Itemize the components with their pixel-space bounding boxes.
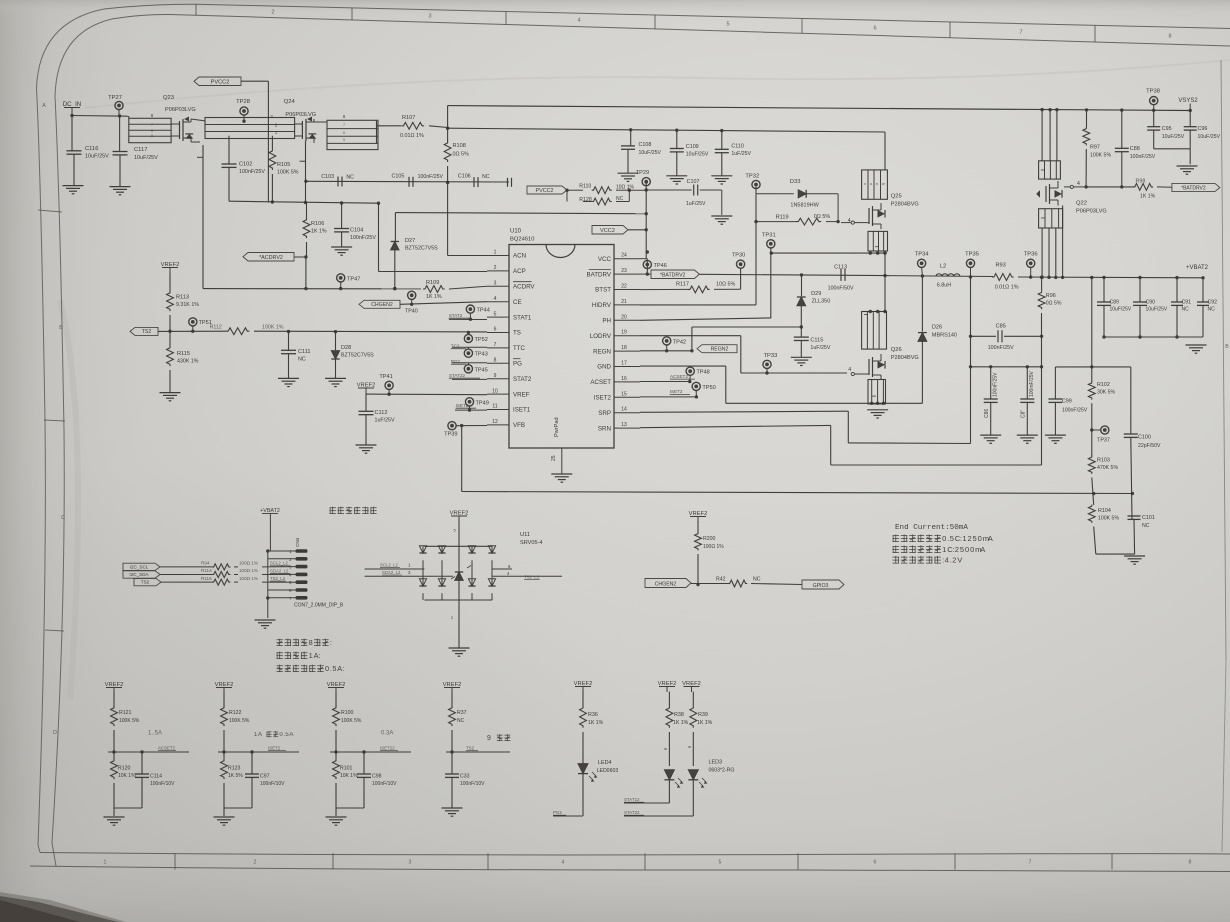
svg-text:NC: NC (1142, 523, 1150, 529)
svg-text:TP50: TP50 (702, 385, 715, 391)
wire C86/C87 row (971, 366, 1042, 368)
svg-text:PH: PH (602, 318, 611, 325)
svg-text:C115: C115 (810, 338, 823, 344)
svg-text:R105: R105 (277, 162, 290, 168)
svg-text:NC: NC (457, 718, 465, 724)
transistor Q23 left pin box (129, 118, 171, 142)
svg-text:0: 0 (325, 664, 329, 673)
wire row y202 (229, 201, 379, 203)
ground D28 (325, 377, 346, 379)
svg-text:2: 2 (254, 860, 257, 866)
svg-text:CE: CE (513, 299, 522, 306)
svg-text:TP38: TP38 (1146, 89, 1160, 95)
tag CHGEN2 to CE (359, 300, 400, 308)
svg-text:0.3A: 0.3A (381, 731, 393, 737)
resistor R103 (1088, 456, 1095, 474)
svg-text:0: 0 (970, 545, 974, 554)
wire TS row (158, 330, 226, 332)
svg-text:3: 3 (428, 14, 431, 20)
ground R104 (1124, 555, 1145, 557)
wire HIDRV to TP32 riser (640, 304, 756, 306)
capacitor C108 (629, 128, 632, 131)
svg-text:1: 1 (494, 250, 497, 256)
svg-text:TP41: TP41 (379, 374, 392, 380)
svg-text:100K 5%: 100K 5% (341, 718, 362, 724)
svg-text:100Ω 1%: 100Ω 1% (239, 568, 258, 573)
svg-text::: : (319, 651, 321, 660)
wire CN4 bus (267, 551, 269, 598)
transistor Q25 lower pin box (868, 231, 888, 251)
ground C107 (721, 190, 723, 215)
svg-text:5: 5 (494, 311, 497, 317)
svg-text:VFB: VFB (513, 422, 525, 429)
svg-text:Q23: Q23 (163, 95, 174, 101)
svg-text:TP36: TP36 (1024, 252, 1038, 258)
ground C109 (666, 175, 687, 177)
svg-text:TP35: TP35 (965, 252, 979, 258)
svg-text:V: V (957, 556, 962, 565)
svg-text:12: 12 (492, 419, 498, 425)
svg-text:ACDRV: ACDRV (513, 284, 535, 291)
svg-text:10uF/25V: 10uF/25V (686, 152, 709, 158)
svg-text:ACN: ACN (513, 253, 526, 260)
svg-text:DC_IN: DC_IN (63, 101, 82, 108)
svg-text:BZT52C7V5S: BZT52C7V5S (405, 246, 438, 252)
svg-text:HIDRV: HIDRV (592, 302, 612, 309)
svg-text:100nF/25V: 100nF/25V (239, 169, 265, 175)
svg-text:20: 20 (621, 314, 627, 320)
svg-text:VCC2: VCC2 (600, 228, 615, 234)
svg-text:100K 5%: 100K 5% (277, 170, 299, 176)
svg-text:0Ω 5%: 0Ω 5% (814, 214, 831, 220)
svg-text:1..5A: 1..5A (148, 731, 162, 737)
svg-text:TP45: TP45 (475, 367, 488, 373)
svg-text:TTC: TTC (513, 345, 526, 352)
svg-text:100K 5%: 100K 5% (1090, 153, 1111, 159)
svg-text:1: 1 (962, 534, 966, 543)
wire Q24 box right bus (376, 121, 378, 143)
svg-text:470K 5%: 470K 5% (1097, 465, 1118, 471)
svg-text:2: 2 (952, 556, 956, 565)
capacitor C90 (1138, 276, 1141, 279)
wire Q25 drain top bus (862, 169, 887, 171)
svg-text:18: 18 (621, 345, 627, 351)
capacitor C114 (141, 752, 143, 774)
svg-text:TP32: TP32 (745, 174, 759, 180)
capacitor C88 (1121, 110, 1123, 148)
transistor Q26 upper pin box (862, 312, 887, 350)
svg-text:PVCC2: PVCC2 (211, 79, 230, 85)
tag CHGEN2 bottom (645, 579, 691, 588)
svg-text:6: 6 (151, 129, 153, 133)
svg-text:8: 8 (1189, 860, 1192, 866)
svg-text:0: 0 (965, 545, 969, 554)
svg-text:LED3: LED3 (709, 760, 723, 766)
svg-text:19: 19 (621, 330, 627, 336)
svg-text:BZT52C7V5S: BZT52C7V5S (341, 353, 374, 359)
testpoint TP48 (686, 367, 694, 375)
svg-text:C114: C114 (150, 774, 162, 780)
svg-text:o: o (870, 182, 872, 186)
testpoint TP39 wire VFB (448, 422, 456, 430)
svg-text:C112: C112 (375, 410, 388, 416)
svg-text:ZLL350: ZLL350 (812, 299, 831, 305)
tag *ACDRV2 (243, 253, 294, 262)
ground C33 (442, 807, 463, 809)
capacitor C109 (675, 129, 678, 132)
svg-text:BATDRV: BATDRV (586, 271, 611, 278)
transistor Q25 upper pin box (862, 170, 888, 199)
capacitor C117 (119, 116, 121, 152)
svg-text:LED0603: LED0603 (597, 768, 619, 774)
svg-text:7: 7 (494, 342, 497, 348)
wire Q23 drain to box2 (191, 119, 205, 121)
svg-text:BTST: BTST (595, 287, 611, 294)
svg-text:R116: R116 (201, 576, 212, 581)
svg-text:C100: C100 (1138, 435, 1151, 441)
transistor Q22 upper pin bundle (1041, 110, 1043, 161)
capacitor C99 (1054, 367, 1056, 399)
svg-text:U10: U10 (510, 229, 522, 235)
wire Q26 source ground row (726, 402, 923, 404)
svg-text:STAT22: STAT22 (449, 373, 466, 378)
svg-text:R36: R36 (588, 712, 598, 718)
resistor R102 (1088, 381, 1095, 399)
svg-text:23: 23 (621, 268, 627, 274)
svg-text:R200: R200 (703, 536, 716, 542)
svg-text:R42: R42 (716, 577, 726, 583)
svg-text:C109: C109 (686, 144, 699, 150)
svg-text:P06P03LVG: P06P03LVG (165, 107, 196, 113)
svg-text:VSYS2: VSYS2 (1178, 98, 1198, 104)
resistor R200 (697, 521, 699, 532)
svg-text:8: 8 (494, 358, 497, 364)
svg-text:R101: R101 (340, 766, 353, 772)
svg-text:SDA2_L2: SDA2_L2 (382, 570, 401, 575)
svg-text:6.8uH: 6.8uH (937, 283, 951, 289)
testpoint TP50 (692, 382, 700, 390)
svg-text:10uF/25V: 10uF/25V (1198, 134, 1221, 140)
transistor Q23 gate wire (181, 141, 203, 158)
svg-text:22: 22 (621, 284, 627, 290)
svg-text:*BATDRV2: *BATDRV2 (1181, 185, 1206, 191)
svg-text:U11: U11 (520, 532, 530, 538)
capacitor C111 (288, 332, 290, 351)
tag PVCC2 mid (527, 186, 567, 194)
wire R37 junction (446, 751, 510, 753)
wire ACDRV row (203, 288, 421, 290)
svg-text:Q26: Q26 (891, 347, 902, 353)
svg-text:14: 14 (621, 407, 627, 413)
svg-text:C104: C104 (350, 228, 363, 234)
resistor R105 (271, 136, 273, 149)
svg-text:ISET1: ISET1 (513, 407, 531, 414)
ground C86 (980, 434, 1001, 436)
svg-text:SRN: SRN (598, 425, 611, 432)
transistor Q22 lower pin bundle (1039, 209, 1063, 228)
wire LODRV to Q26 gate (640, 335, 741, 337)
tag TS2 row3 (134, 578, 161, 585)
svg-text:n: n (876, 182, 878, 186)
svg-text:430K 1%: 430K 1% (177, 359, 199, 365)
diode array U11 mid rails (365, 568, 425, 570)
svg-text:SDA2_L2: SDA2_L2 (270, 568, 289, 573)
svg-text:1uF/25V: 1uF/25V (375, 418, 395, 424)
capacitor C100 (1130, 367, 1132, 434)
svg-text:NC: NC (616, 196, 624, 202)
svg-text:L2: L2 (940, 264, 946, 270)
svg-text:SCL2_L2: SCL2_L2 (270, 561, 289, 566)
svg-text:ACSET2: ACSET2 (158, 746, 176, 751)
svg-text:100K 5%: 100K 5% (1098, 516, 1119, 522)
svg-text:TP27: TP27 (108, 95, 122, 101)
wire LED3b cathode STAT22 (692, 780, 694, 816)
svg-text:2: 2 (271, 10, 274, 16)
svg-text:C111: C111 (298, 349, 311, 355)
svg-text:7: 7 (151, 123, 153, 127)
svg-text:ISET22: ISET22 (380, 746, 395, 751)
svg-text:C116: C116 (85, 146, 98, 152)
svg-text:TP43: TP43 (475, 352, 488, 358)
wire Q26 drain top bus (862, 311, 887, 313)
svg-text:*ACDRV2: *ACDRV2 (259, 255, 283, 261)
svg-text:0: 0 (942, 534, 946, 543)
svg-text:4: 4 (945, 556, 949, 565)
wire LED4 cathode (582, 774, 584, 816)
svg-text:30K 5%: 30K 5% (1097, 390, 1116, 396)
svg-text:C103: C103 (321, 174, 334, 180)
svg-text:10: 10 (492, 388, 498, 394)
svg-text:R114: R114 (201, 568, 212, 573)
svg-text:100nF/10V: 100nF/10V (150, 781, 175, 787)
ground C111 (278, 377, 299, 379)
wire filter row y181 (306, 180, 509, 183)
svg-text:1K 1%: 1K 1% (1140, 194, 1156, 200)
svg-text:C108: C108 (639, 142, 652, 148)
wire SRN route (640, 425, 831, 427)
testpoint TP44 (466, 305, 474, 313)
svg-text:21: 21 (621, 299, 627, 305)
resistor R100 (335, 693, 337, 708)
svg-text:R123: R123 (228, 766, 241, 772)
svg-text:100nF/10V: 100nF/10V (260, 781, 285, 787)
svg-text:100nF/50V: 100nF/50V (828, 286, 854, 292)
svg-text:1uF/25V: 1uF/25V (731, 151, 751, 157)
capacitor C104 (341, 203, 343, 229)
svg-text:C95: C95 (1162, 126, 1172, 132)
diode array U11 bottom rail (424, 599, 492, 601)
svg-text:D29: D29 (811, 291, 821, 297)
svg-text:6: 6 (494, 327, 497, 333)
node R107 out (446, 127, 449, 130)
transistor Q24 gate wire (305, 141, 307, 203)
svg-text:LODRV: LODRV (590, 333, 612, 340)
svg-text:100nF/25V: 100nF/25V (993, 372, 999, 397)
svg-text:TS: TS (513, 330, 521, 337)
svg-text:D28: D28 (341, 345, 351, 351)
wire LED3a cathode STAT12 (668, 780, 670, 803)
svg-text:10uF/25V: 10uF/25V (1110, 307, 1132, 313)
tag VCC2 (592, 226, 628, 235)
svg-text:4: 4 (577, 18, 580, 24)
capacitor C92 (1202, 278, 1204, 302)
ground R115 (160, 392, 181, 394)
svg-text:C99: C99 (1062, 399, 1072, 405)
U10 right pin stubs and numbers (614, 258, 640, 260)
svg-text:100Ω 1%: 100Ω 1% (703, 544, 724, 550)
svg-text:100nF/10V: 100nF/10V (372, 781, 397, 787)
svg-text:5: 5 (343, 138, 345, 142)
ground CN4 (267, 598, 269, 618)
testpoint TP47 (337, 274, 345, 282)
note Chinese battery text (330, 507, 336, 514)
transistor Q24 symbol (301, 121, 303, 139)
svg-text:1K 1%: 1K 1% (697, 720, 713, 726)
node junction DC_IN (70, 114, 73, 117)
svg-text:1K 1%: 1K 1% (673, 720, 689, 726)
wire center vertical from rail (1091, 278, 1093, 382)
ground C108 (618, 172, 639, 174)
svg-text:10K 1%: 10K 1% (340, 773, 358, 779)
transistor Q24 right pin box (327, 120, 378, 149)
svg-text:CON7_2.0MM_DIP_B: CON7_2.0MM_DIP_B (294, 603, 344, 609)
svg-text:25: 25 (551, 455, 557, 461)
diode D28 BZT52C7V5S (335, 332, 337, 350)
wire VSYS rail junctions (1040, 108, 1043, 111)
svg-text:R115: R115 (177, 351, 190, 357)
svg-text:0Ω 5%: 0Ω 5% (453, 152, 470, 158)
svg-text:ACP: ACP (513, 268, 526, 275)
svg-text:5: 5 (332, 664, 336, 673)
ground C116 (63, 185, 84, 187)
ground R120 (104, 816, 125, 818)
svg-text:C90: C90 (1146, 300, 1156, 306)
ground C117 (110, 186, 131, 188)
svg-text:D: D (53, 730, 57, 736)
svg-text:TP30: TP30 (732, 253, 745, 259)
svg-text:REGN2: REGN2 (711, 347, 729, 353)
svg-text:8: 8 (309, 638, 313, 647)
diode array U11 top rail (424, 545, 492, 547)
wire R102 box top (1055, 366, 1130, 368)
wire row y213 (395, 213, 646, 214)
svg-text:Q24: Q24 (284, 99, 296, 105)
svg-text:C106: C106 (458, 174, 471, 180)
svg-text:4: 4 (494, 296, 497, 302)
svg-text:R121: R121 (119, 710, 132, 716)
resistor R37 (451, 693, 453, 708)
svg-text:13: 13 (621, 422, 627, 428)
svg-text:10Ω 1%: 10Ω 1% (616, 185, 634, 191)
ground C110 (711, 175, 732, 177)
svg-text:R102: R102 (1097, 382, 1110, 388)
capacitor C95 (1153, 110, 1155, 126)
svg-text:100nF/25V: 100nF/25V (1062, 408, 1088, 414)
frame corner curve top-left (37, 9, 105, 88)
svg-text:+VBAT2: +VBAT2 (1186, 265, 1209, 271)
svg-text:A: A (42, 103, 46, 109)
svg-text:1N5819HW: 1N5819HW (790, 203, 819, 209)
svg-text:STAT1: STAT1 (513, 314, 532, 321)
svg-text:PG2: PG2 (553, 810, 562, 815)
resistor R104 (1088, 505, 1095, 523)
diode array U11 top diodes (422, 546, 424, 552)
wire switch node vertical (884, 253, 886, 311)
wire divider bottom R122 (224, 807, 252, 809)
crease shadow top (85, 60, 1230, 108)
svg-text:R107: R107 (402, 115, 415, 121)
svg-text:100Ω 1%: 100Ω 1% (239, 576, 258, 581)
ground Q26 (867, 409, 888, 411)
wire ACDRV vertical (305, 257, 307, 289)
svg-text:NC: NC (1182, 307, 1190, 313)
svg-text:11: 11 (492, 404, 497, 410)
svg-text::: : (342, 664, 344, 673)
ground R123 (214, 816, 235, 818)
svg-text:TP31: TP31 (762, 232, 776, 238)
svg-text:R100: R100 (341, 710, 354, 716)
svg-text:10uF/25V: 10uF/25V (1162, 134, 1185, 140)
svg-text:100K 5%: 100K 5% (229, 718, 250, 724)
resistor R39 (692, 692, 694, 707)
capacitor small end (507, 178, 509, 187)
note charge time text (277, 639, 283, 646)
capacitor C110 (720, 129, 723, 132)
svg-text:6: 6 (874, 860, 877, 866)
svg-text:STAT2: STAT2 (513, 376, 532, 383)
svg-text:ISET2: ISET2 (594, 395, 612, 402)
transistor Q26 lower pin box (868, 380, 886, 404)
svg-text:0: 0 (978, 534, 982, 543)
svg-text:LED4: LED4 (598, 760, 612, 766)
svg-text:3: 3 (494, 281, 497, 287)
svg-text:C101: C101 (1142, 515, 1155, 521)
testpoint TP52 (464, 334, 472, 342)
testpoint TP42 (663, 337, 671, 345)
svg-text:4: 4 (848, 367, 851, 373)
svg-text:9: 9 (494, 373, 497, 379)
svg-text:22pF/50V: 22pF/50V (1138, 443, 1161, 449)
svg-text:C96: C96 (1198, 126, 1208, 132)
svg-text:NC: NC (482, 174, 490, 180)
ground C99 (1045, 434, 1066, 436)
svg-text:R112: R112 (210, 325, 222, 331)
svg-text:R97: R97 (1090, 145, 1100, 151)
wire PVCC2 to Q24 source (241, 80, 268, 82)
svg-text:0.01Ω 1%: 0.01Ω 1% (995, 285, 1019, 291)
resistor R121 (113, 693, 115, 708)
svg-text:ISET2: ISET2 (670, 389, 683, 394)
resistor R106 (303, 218, 310, 238)
svg-text:R120: R120 (118, 766, 131, 772)
svg-text:BQ24610: BQ24610 (510, 237, 535, 243)
svg-text:1: 1 (309, 651, 313, 660)
resistor R123 (221, 759, 228, 779)
svg-text:9: 9 (487, 735, 491, 742)
svg-text:0Ω 5%: 0Ω 5% (1046, 301, 1062, 307)
svg-text:GND: GND (597, 364, 611, 371)
frame bottom band (40, 853, 1230, 855)
svg-text:1: 1 (104, 860, 107, 866)
ground U11 (449, 647, 470, 649)
svg-text:R113: R113 (176, 295, 189, 301)
svg-text:100nF/25V: 100nF/25V (418, 174, 444, 180)
svg-text:PwrPad: PwrPad (554, 417, 560, 437)
svg-text:CN4: CN4 (295, 537, 300, 547)
led LED3 A (664, 770, 674, 780)
capacitor C86 (990, 367, 992, 399)
svg-text:TS2_L2: TS2_L2 (524, 574, 540, 579)
